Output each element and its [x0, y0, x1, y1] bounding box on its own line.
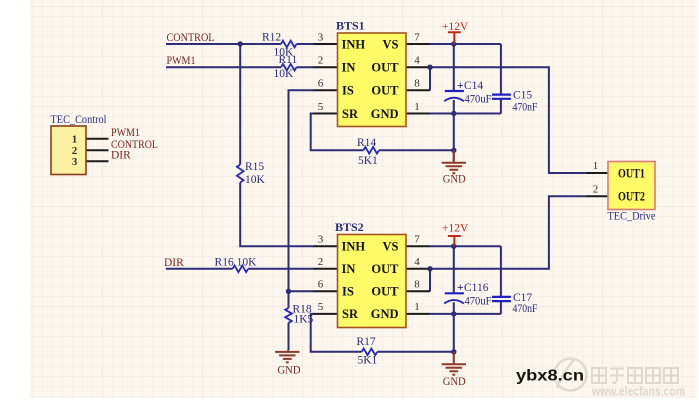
svg-text:8: 8 — [414, 78, 420, 90]
svg-text:R12: R12 — [262, 32, 281, 44]
connector TEC_Control — [51, 126, 86, 175]
node junction R17 / GND symbol — [451, 349, 456, 354]
svg-text:IN: IN — [342, 61, 356, 75]
svg-text:470uF: 470uF — [465, 296, 492, 308]
svg-text:+12V: +12V — [442, 223, 469, 235]
wire C17 vertical top — [500, 246, 502, 296]
svg-text:GND: GND — [443, 376, 466, 388]
wire CONTROL net to R12 — [166, 43, 281, 45]
svg-text:+: + — [457, 80, 464, 92]
pin 3 INH BTS2 — [314, 245, 338, 247]
node junction VS2/+12V/C116 — [451, 244, 456, 249]
svg-text:DIR: DIR — [111, 150, 131, 162]
svg-text:2: 2 — [593, 184, 599, 196]
wire C14 vertical — [453, 44, 455, 150]
svg-text:GND: GND — [371, 107, 399, 121]
wire C15 vertical top — [500, 44, 502, 94]
resistor R11 — [281, 64, 297, 71]
pin 6 IS BTS1 — [314, 89, 338, 91]
pin 7 VS BTS1 — [406, 43, 430, 45]
wire SR2 loop to R17 — [311, 314, 362, 352]
svg-text:1: 1 — [414, 301, 420, 313]
pin 6 IS BTS2 — [314, 290, 338, 292]
svg-text:OUT: OUT — [371, 84, 399, 98]
svg-text:R11: R11 — [279, 54, 298, 66]
wire VS1 to C15 top corner — [430, 43, 501, 45]
capacitor C17 plates — [492, 297, 511, 301]
IC body BTS2 — [338, 235, 407, 328]
resistor R15 (vertical) — [237, 165, 244, 183]
resistor R14 — [363, 147, 379, 154]
svg-text:1K5: 1K5 — [294, 314, 314, 326]
pin 1 GND BTS1 — [406, 113, 430, 115]
svg-text:3: 3 — [72, 156, 78, 168]
svg-text:BTS1: BTS1 — [336, 19, 365, 33]
pin 5 SR BTS1 — [314, 113, 338, 115]
svg-text:2: 2 — [318, 256, 324, 268]
svg-text:10K: 10K — [245, 174, 266, 186]
wire IS1 vertical down through R18 to GND — [289, 90, 315, 350]
pin 1 TEC_Drive — [586, 172, 608, 174]
power +12V (BTS2) bar and stub — [448, 236, 461, 246]
wire C116 vertical — [453, 246, 455, 352]
capacitor C14 plates — [445, 90, 464, 92]
node junction IS2 / R18 vertical — [286, 289, 291, 294]
svg-text:R15: R15 — [245, 161, 264, 173]
svg-text:1: 1 — [414, 101, 420, 113]
ground symbol GND3 (below R18) — [275, 351, 299, 363]
svg-text:1: 1 — [72, 134, 78, 146]
svg-text:GND: GND — [443, 174, 466, 186]
node junction VS1/+12V/C14 — [451, 41, 456, 46]
node junction CONTROL/R15 — [238, 41, 243, 46]
svg-text:OUT1: OUT1 — [618, 166, 645, 180]
svg-text:OUT: OUT — [371, 262, 399, 276]
pin 2 IN BTS2 — [314, 268, 338, 270]
svg-text:IS: IS — [342, 84, 354, 98]
svg-text:VS: VS — [383, 37, 399, 51]
svg-text:5: 5 — [318, 301, 324, 313]
power +12V (BTS1) bar and stub — [448, 32, 461, 44]
svg-text:2: 2 — [318, 55, 324, 67]
pin 2 TEC_Drive — [586, 195, 608, 197]
wire IS2 stub to vertical — [289, 290, 315, 292]
svg-text:IS: IS — [342, 285, 354, 299]
svg-text:5K1: 5K1 — [358, 155, 378, 167]
svg-text:CONTROL: CONTROL — [167, 32, 215, 44]
pin 3 INH BTS1 — [314, 43, 338, 45]
wire CONTROL vertical through R15 to BTS2 INH — [240, 44, 314, 246]
svg-text:+: + — [457, 282, 464, 294]
capacitor C15 plates — [492, 95, 511, 99]
svg-text:TEC_Drive: TEC_Drive — [608, 210, 656, 222]
svg-text:6: 6 — [318, 279, 324, 291]
svg-text:C17: C17 — [513, 292, 532, 304]
pin 8 OUT BTS1 — [406, 89, 430, 91]
wire R17 to GND node — [377, 351, 454, 353]
svg-text:VS: VS — [383, 240, 399, 254]
wire GND pin1 BTS1 row — [430, 113, 501, 115]
capacitor C116 plates — [445, 292, 464, 294]
node junction R14 / GND symbol — [451, 148, 456, 153]
resistor R12 — [281, 41, 297, 48]
wire SR1 loop to R14 — [311, 114, 364, 151]
wire pin8 BTS2 link up to pin4 — [429, 269, 431, 292]
svg-text:INH: INH — [342, 240, 366, 254]
resistor R16 — [233, 266, 248, 273]
node junction pin4/pin8 BTS2 — [427, 266, 432, 271]
wire R14 to GND node — [379, 149, 454, 151]
svg-text:www.elecfans.com: www.elecfans.com — [591, 385, 685, 399]
svg-text:C116: C116 — [464, 282, 489, 294]
svg-text:5K1: 5K1 — [358, 355, 378, 367]
svg-text:470uF: 470uF — [465, 94, 492, 106]
svg-text:PWM1: PWM1 — [167, 55, 196, 67]
svg-text:4: 4 — [414, 55, 420, 67]
pin 4 OUT BTS1 — [406, 66, 430, 68]
resistor R17 — [362, 349, 378, 356]
svg-text:3: 3 — [318, 31, 324, 43]
svg-text:ybx8.cn: ybx8.cn — [516, 368, 584, 385]
svg-text:7: 7 — [414, 234, 420, 246]
wire DIR net through R16 to pin2 BTS2 — [166, 268, 314, 270]
wire GND pin1 BTS2 row — [430, 313, 501, 315]
svg-text:8: 8 — [414, 279, 420, 291]
svg-text:5: 5 — [318, 101, 324, 113]
wire R12 to pin3 BTS1 — [297, 43, 315, 45]
svg-text:C15: C15 — [513, 90, 532, 102]
ground symbol GND2 (below R17 node) — [442, 352, 466, 375]
node junction GND1 row / C14 — [451, 111, 456, 116]
wire VS2 to C17 corner — [430, 245, 501, 247]
svg-text:4: 4 — [414, 256, 420, 268]
pin 1 TEC_Control — [86, 138, 109, 140]
pin 5 SR BTS2 — [314, 313, 338, 315]
pin 8 OUT BTS2 — [406, 290, 430, 292]
svg-text:R14: R14 — [357, 137, 376, 149]
IC body BTS1 — [338, 33, 407, 127]
wires and components inserted below — [166, 44, 586, 352]
wire C15 vertical bottom — [500, 99, 502, 113]
ground symbol GND1 (below R14 node) — [442, 150, 466, 173]
resistor R18 (vertical) — [285, 308, 292, 323]
svg-text:1: 1 — [593, 160, 599, 172]
svg-text:OUT: OUT — [371, 285, 399, 299]
pin 2 TEC_Control — [86, 149, 109, 151]
pin 4 OUT BTS2 — [406, 268, 430, 270]
wire OUT pin4 BTS2 to OUT2 — [430, 196, 586, 269]
connector TEC_Drive body — [608, 162, 655, 210]
svg-text:R16 10K: R16 10K — [215, 257, 258, 269]
svg-text:470nF: 470nF — [513, 102, 538, 114]
svg-text:DIR: DIR — [164, 257, 184, 269]
svg-text:IN: IN — [342, 262, 356, 276]
pin 2 IN BTS1 — [314, 66, 338, 68]
svg-text:BTS2: BTS2 — [335, 220, 364, 234]
svg-text:GND: GND — [371, 307, 399, 321]
svg-text:OUT: OUT — [371, 61, 399, 75]
wire GND1 stub — [453, 150, 455, 161]
wire PWM1 net to R11 — [166, 66, 281, 68]
pin 1 GND BTS2 — [406, 313, 430, 315]
wire R11 to pin2 BTS1 — [297, 66, 315, 68]
svg-text:SR: SR — [342, 307, 359, 321]
wire pin8 BTS1 link up to pin4 — [429, 67, 431, 90]
svg-text:470nF: 470nF — [513, 303, 538, 315]
pin 7 VS BTS2 — [406, 245, 430, 247]
svg-text:10K: 10K — [274, 68, 295, 80]
svg-text:PWM1: PWM1 — [111, 127, 140, 139]
wire OUT pin4 BTS1 to OUT1 — [430, 67, 586, 173]
svg-text:SR: SR — [342, 107, 359, 121]
pin 3 TEC_Control — [86, 160, 109, 162]
svg-text:R17: R17 — [357, 336, 376, 348]
watermark logo circle — [555, 359, 587, 391]
svg-text:7: 7 — [414, 31, 420, 43]
svg-text:3: 3 — [318, 234, 324, 246]
svg-text:INH: INH — [342, 37, 366, 51]
watermark chinese characters (stylized) — [592, 368, 678, 383]
svg-text:6: 6 — [318, 78, 324, 90]
svg-text:C14: C14 — [464, 80, 483, 92]
svg-text:+12V: +12V — [442, 21, 469, 33]
node junction GND2 row / C116 — [451, 311, 456, 316]
node junction pin4/pin8 BTS1 — [427, 65, 432, 70]
svg-text:OUT2: OUT2 — [618, 190, 645, 204]
svg-text:GND: GND — [278, 365, 301, 377]
svg-text:TEC_Control: TEC_Control — [51, 114, 107, 126]
wire C17 vertical bottom — [500, 301, 502, 314]
